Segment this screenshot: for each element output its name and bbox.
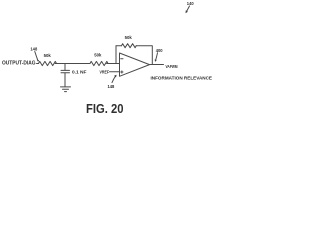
- leader arrow from 148 to VREF wire: [112, 76, 116, 83]
- resistor R3 50k feedback: [122, 44, 137, 48]
- node B feedback tap: [115, 46, 117, 64]
- wire R1 to node A: [55, 63, 65, 65]
- wire VREF to op-amp non-inverting input: [110, 71, 120, 73]
- leader arrow from 148 to wire: [35, 52, 38, 61]
- svg-text:VAPWM: VAPWM: [166, 64, 178, 69]
- ground: [61, 86, 71, 88]
- wire OUTPUT-DIAG to R1: [37, 63, 39, 65]
- svg-text:148: 148: [108, 84, 116, 89]
- svg-text:148: 148: [30, 47, 38, 52]
- svg-text:INFORMATION RELEVANCE: INFORMATION RELEVANCE: [151, 76, 213, 81]
- svg-text:FIG. 20: FIG. 20: [86, 102, 124, 116]
- wire feedback to output: [136, 46, 152, 65]
- svg-text:50k: 50k: [125, 35, 133, 40]
- svg-text:OUTPUT-DIAG: OUTPUT-DIAG: [2, 61, 36, 67]
- wire capacitor to ground: [64, 73, 66, 87]
- capacitor C1 plates: [61, 69, 70, 71]
- leader arrow from 400 to output wire: [156, 53, 158, 61]
- wire R2 to op-amp inverting input: [107, 63, 120, 65]
- svg-text:0.1 NF: 0.1 NF: [72, 69, 87, 74]
- svg-text:50k: 50k: [94, 53, 102, 58]
- wire op-amp output: [150, 64, 164, 66]
- wire feedback top: [116, 45, 122, 47]
- capacitor C1 branch wire: [64, 64, 66, 71]
- resistor R2 50k: [90, 61, 108, 65]
- op-amp U1: [120, 53, 150, 76]
- op-amp minus sign: [121, 58, 123, 60]
- node A junction: [65, 63, 90, 65]
- resistor R1 50k: [39, 61, 57, 65]
- op-amp plus sign: [121, 71, 123, 73]
- svg-text:50k: 50k: [44, 53, 52, 58]
- svg-text:400: 400: [156, 48, 164, 53]
- svg-text:VREF: VREF: [100, 69, 110, 74]
- leader arrow 140: [187, 6, 190, 12]
- svg-text:140: 140: [187, 1, 195, 6]
